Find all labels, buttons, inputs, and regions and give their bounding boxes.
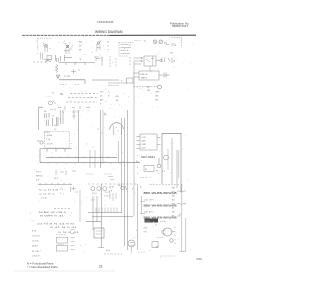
comb legs under labels xyxy=(110,193,116,201)
right cap cluster xyxy=(161,58,172,64)
vertical pair with dots xyxy=(61,110,64,124)
svg-text:21: 21 xyxy=(99,265,103,269)
mid vertical wire f xyxy=(118,141,120,163)
svg-text:( ) 9 41: ( ) 9 41 xyxy=(32,240,39,242)
mid vertical wire j xyxy=(137,184,139,250)
main wire right segment xyxy=(92,79,119,81)
relay output node xyxy=(156,59,162,61)
aux relay box xyxy=(144,166,154,172)
mid cluster circle xyxy=(121,186,127,190)
feed corner into harness xyxy=(94,57,102,66)
bus line upper ticks xyxy=(52,156,108,158)
svg-text:5 = 0.13: 5 = 0.13 xyxy=(39,190,60,192)
thermostat small box A xyxy=(57,237,68,243)
door hinge marks xyxy=(50,108,55,111)
plus mark xyxy=(72,187,76,191)
bottom bus 1 xyxy=(88,212,122,214)
lamp trio circle 2 xyxy=(97,187,101,191)
door switch bars A xyxy=(41,53,53,60)
lamp trio circle 3 xyxy=(103,187,107,191)
condenser fan circle xyxy=(164,155,169,160)
svg-text:OR: OR xyxy=(147,90,151,92)
svg-text:L: L xyxy=(175,231,176,233)
left hinge dots xyxy=(46,96,52,98)
harness left corner 1 xyxy=(140,199,145,202)
svg-text:O | 41 8: O | 41 8 xyxy=(32,235,40,237)
lamp trio circle 1 xyxy=(91,187,95,191)
bottom vertical wire n xyxy=(92,196,94,230)
terminal strip dashed top xyxy=(150,184,180,186)
long vertical wire a xyxy=(78,110,80,163)
evaporator fan motor leads xyxy=(114,126,122,135)
bottom vertical wire o xyxy=(96,196,98,222)
condenser fan motor inner xyxy=(162,230,166,234)
evaporator fan motor arc xyxy=(110,123,124,130)
svg-text:* 18 *9: * 18 *9 xyxy=(104,192,111,194)
dashes left of thermostat xyxy=(134,40,142,42)
svg-text:ADC 8041: ADC 8041 xyxy=(141,156,156,159)
svg-text:oc: oc xyxy=(155,224,157,226)
harness left corner 2 xyxy=(140,211,145,214)
bus line lower xyxy=(40,162,140,164)
right vertical wire n2 xyxy=(167,149,169,170)
bottom bus 3 xyxy=(86,221,102,223)
bus line lower ticks xyxy=(48,163,120,165)
wire top bus dashed lead xyxy=(33,61,44,63)
right long vertical r xyxy=(181,184,183,251)
long vertical wire c xyxy=(102,110,104,163)
relay box U1 xyxy=(144,56,156,66)
control box dashed top xyxy=(119,41,134,43)
relay to timer link xyxy=(149,66,151,71)
ADC lower dashes xyxy=(140,177,148,179)
relay box U1 internals xyxy=(146,59,154,63)
svg-text:L 8 41 9: L 8 41 9 xyxy=(32,256,40,258)
bottom left bits of mid column xyxy=(108,177,114,180)
thermostat mid marks xyxy=(56,235,66,245)
defrost thermostat circle xyxy=(40,141,43,144)
short vertical wire e xyxy=(94,150,96,168)
bottom vertical wire o2 xyxy=(79,190,81,214)
right corner wire xyxy=(162,133,181,192)
svg-text:9N: 9N xyxy=(60,93,63,96)
right vertical wire l xyxy=(176,150,178,188)
node circle N1 xyxy=(158,85,162,89)
mid vertical wire g xyxy=(124,118,126,246)
lamp L2 speckles xyxy=(64,43,73,51)
start relay box xyxy=(152,242,158,248)
switch dash row xyxy=(54,208,70,210)
svg-text:5995371517: 5995371517 xyxy=(172,24,188,28)
note bracket top right xyxy=(172,38,182,48)
wires into timer area xyxy=(108,82,133,84)
evaporator fan motor specks xyxy=(116,128,120,131)
door switch bars B xyxy=(56,55,73,61)
svg-text:41 BU 9: 41 BU 9 xyxy=(146,211,154,213)
cluster legs xyxy=(45,45,100,55)
svg-text:41 BK: 41 BK xyxy=(47,135,53,137)
comb bottom marks xyxy=(58,106,90,109)
mid vertical wire i xyxy=(133,62,135,216)
comb vertical 1 xyxy=(141,196,143,214)
node cluster under ADC xyxy=(157,158,161,168)
svg-text:15 OR: 15 OR xyxy=(64,76,71,78)
svg-text:41 OR 9: 41 OR 9 xyxy=(146,199,155,201)
connector comb row 3 xyxy=(66,101,97,103)
svg-text:8: 8 xyxy=(137,167,138,169)
timer dashed box xyxy=(45,132,70,149)
thermostat symbol pair xyxy=(153,40,163,44)
bottom bus 2 xyxy=(92,216,133,218)
footer faint rule xyxy=(14,270,115,272)
svg-text:41 OR: 41 OR xyxy=(47,143,54,145)
svg-text:x: x xyxy=(174,67,175,69)
door hinge switch circle xyxy=(49,101,56,106)
harness row 3 tail xyxy=(177,213,180,216)
svg-text:8: 8 xyxy=(175,243,176,245)
svg-text:TMR 8: TMR 8 xyxy=(141,78,148,80)
mid vertical wire h xyxy=(127,110,129,250)
wire stub dashes xyxy=(60,84,80,86)
svg-text:1N: 1N xyxy=(170,53,173,55)
defrost heater box marks xyxy=(96,231,102,234)
svg-text:4: 4 xyxy=(137,173,138,175)
svg-text:8: 8 xyxy=(175,235,176,237)
svg-text:WIRING DIAGRAM: WIRING DIAGRAM xyxy=(95,30,123,34)
right long vertical s xyxy=(185,218,187,251)
svg-text:DEF 41: DEF 41 xyxy=(141,74,149,76)
fan dashed stub xyxy=(157,237,164,239)
svg-text:5 21 6: 5 21 6 xyxy=(44,132,51,134)
right stub dash column xyxy=(71,230,75,250)
defrost timer stubs xyxy=(133,73,163,77)
right vertical wire m xyxy=(178,150,180,178)
bus drop ticks xyxy=(96,208,117,213)
adaptive defrost stubs xyxy=(137,137,161,149)
lamp L1 dashed enclosure xyxy=(38,38,53,50)
svg-text:9 N: 9 N xyxy=(144,231,148,233)
under-bus marks mid xyxy=(56,170,112,175)
control box internals xyxy=(119,42,131,56)
light switch S1 under-bits xyxy=(96,56,102,61)
short vertical wire d xyxy=(89,150,91,168)
svg-text:41 O 41: 41 O 41 xyxy=(32,251,40,253)
svg-text:L1 N: L1 N xyxy=(142,137,147,139)
dashed drop c xyxy=(129,57,131,66)
left terminal pair xyxy=(57,58,59,62)
svg-text:2 O 41: 2 O 41 xyxy=(41,198,48,200)
compressor internals xyxy=(130,243,134,246)
defrost heater box xyxy=(94,228,104,238)
condenser fan motor ellipse xyxy=(163,228,172,236)
svg-text:BU: BU xyxy=(147,87,150,89)
connector comb row 1 xyxy=(70,93,98,95)
lamp L2 symbol xyxy=(66,45,70,49)
right vertical wire k xyxy=(171,138,173,184)
defrost heater zigzag xyxy=(55,65,58,73)
bottom vertical wire p xyxy=(101,184,103,248)
harness row 1 tail xyxy=(177,191,186,193)
svg-text:4: 4 xyxy=(137,155,138,157)
run cap corner xyxy=(98,247,104,249)
right bottom corner join xyxy=(180,250,187,252)
relay stubs with arrows xyxy=(134,57,144,64)
dashed drop a xyxy=(109,56,111,67)
comb dashes over lamps xyxy=(88,183,138,185)
svg-text:8 41 N 9 41: 8 41 N 9 41 xyxy=(50,227,79,229)
dashed drop b xyxy=(115,58,117,68)
mid vertical wire f2 xyxy=(121,118,123,213)
svg-text:8: 8 xyxy=(175,227,176,229)
door hinge bracket xyxy=(39,107,43,130)
fan motor right stub xyxy=(172,231,175,233)
svg-text:= 0.5 =: = 0.5 = xyxy=(39,194,57,196)
marks right of ice maker xyxy=(72,110,78,119)
harness row 2 tail xyxy=(177,203,186,205)
grommet circle xyxy=(170,239,174,243)
thermostat small box B xyxy=(57,245,68,251)
bus line upper xyxy=(46,157,117,159)
adaptive defrost control box xyxy=(140,134,157,150)
note triangle 2 xyxy=(56,75,60,78)
cluster under bracket xyxy=(166,43,174,46)
relay dark box xyxy=(145,219,159,223)
svg-text:9 N 8 41: 9 N 8 41 xyxy=(58,232,81,234)
cluster with plus xyxy=(71,69,80,74)
top dots row xyxy=(62,110,85,112)
svg-text:WH: WH xyxy=(156,92,160,94)
dashed feed to node xyxy=(133,86,157,88)
connector comb row 2 xyxy=(68,97,98,99)
compressor circle xyxy=(128,240,135,247)
connector bracket xyxy=(127,78,134,84)
title rule xyxy=(22,34,110,36)
bottom dashed rail xyxy=(104,253,122,255)
wire top bus hook xyxy=(45,61,51,63)
svg-text:FRS26ZNHB: FRS26ZNHB xyxy=(97,20,113,24)
svg-text:7 42 7: 7 42 7 xyxy=(104,196,110,198)
svg-text:CMP: CMP xyxy=(142,144,147,146)
svg-text:8041: 8041 xyxy=(146,221,152,223)
light switch S1 xyxy=(96,41,101,48)
lamp L1 symbol xyxy=(43,44,48,48)
svg-text:* = Non-Illustrated Parts: * = Non-Illustrated Parts xyxy=(27,265,58,269)
long vertical wire b xyxy=(100,110,102,168)
svg-text:41 N 8 N 14 8 N: 41 N 8 N 14 8 N xyxy=(37,224,75,226)
svg-text:W: W xyxy=(79,50,81,52)
bottom-left switch bars xyxy=(71,187,79,193)
cap cluster right of timer xyxy=(164,73,170,78)
svg-text:4: 4 xyxy=(175,239,176,241)
svg-text:4N: 4N xyxy=(164,43,167,45)
main wire left segment xyxy=(59,80,85,84)
stray specks mid xyxy=(86,129,103,147)
ice maker cluster frame xyxy=(45,113,59,126)
defrost timer box xyxy=(139,71,159,80)
timer bottom rail xyxy=(40,149,72,163)
bottom-left comb line xyxy=(38,183,72,185)
svg-text:8 WH 9 41: 8 WH 9 41 xyxy=(40,216,66,218)
bottom right dashes xyxy=(138,251,146,253)
bottom dashes right xyxy=(160,255,175,257)
svg-text:14 BK 41 OR 5: 14 BK 41 OR 5 xyxy=(38,212,68,214)
svg-text:40 8 0: 40 8 0 xyxy=(32,246,39,248)
compressor lead down xyxy=(131,247,133,253)
top connector dash row xyxy=(108,85,118,87)
wire top bus xyxy=(59,62,95,65)
svg-text:6/01: 6/01 xyxy=(197,257,203,261)
svg-text:WH 14: WH 14 xyxy=(36,176,43,178)
